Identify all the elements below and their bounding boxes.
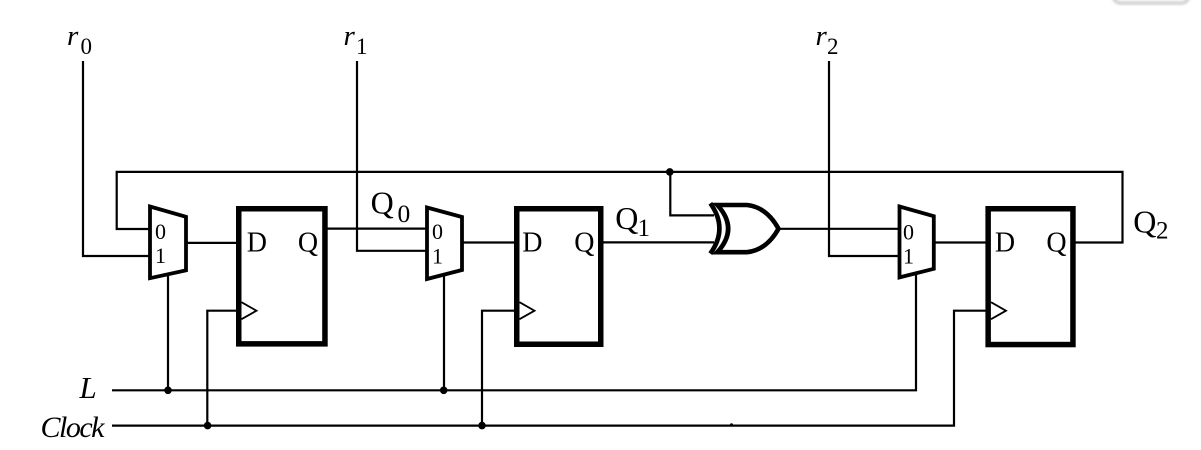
- label Q2: [1133, 204, 1168, 245]
- svg-text:1: 1: [903, 244, 914, 269]
- node L-mux1 junction: [164, 387, 172, 395]
- svg-text:0: 0: [81, 34, 93, 59]
- svg-text:Q: Q: [1046, 228, 1066, 259]
- svg-text:0: 0: [398, 199, 411, 228]
- wire r0 input (down to mux1 input 1): [83, 61, 150, 256]
- svg-text:Q: Q: [371, 185, 394, 221]
- partial gray UI button cut off at top-right: [1113, 0, 1189, 3]
- wire L line (to mux selects, ends rising to mux3 select): [112, 274, 916, 391]
- clock wedge of FF3: [991, 302, 1006, 319]
- wire Q0: FF1 Q output to mux2 input 0: [326, 228, 427, 230]
- multiplexer U3: [900, 207, 934, 278]
- node feedback junction: [666, 168, 674, 176]
- svg-text:r: r: [67, 20, 79, 52]
- wire XOR output to mux3 input 0: [778, 228, 900, 230]
- XOR gate body: [717, 205, 778, 252]
- wire Q1: FF2 Q output to XOR bottom input: [602, 241, 714, 243]
- label Q0: [371, 185, 411, 229]
- svg-text:r: r: [344, 20, 356, 52]
- wire feedback from Q2 output around top to mux1 input 0: [117, 172, 1123, 243]
- svg-text:Q: Q: [1133, 204, 1156, 240]
- wire XOR top input tap: [670, 172, 714, 216]
- XOR gate input double-arc: [710, 203, 719, 253]
- node L-mux2 junction: [440, 387, 448, 395]
- wire r1 input (down to mux2 input 1): [357, 61, 427, 251]
- label r1: [344, 20, 368, 59]
- wire mux3 output to D of FF3: [934, 241, 989, 243]
- svg-text:r: r: [816, 20, 828, 52]
- svg-text:1: 1: [638, 215, 651, 242]
- svg-text:Q: Q: [298, 228, 318, 259]
- wire FF1 clock from Clock line: [207, 311, 240, 426]
- svg-text:D: D: [247, 228, 267, 259]
- svg-text:0: 0: [903, 220, 914, 245]
- svg-text:2: 2: [827, 34, 839, 59]
- wire mux1 select down to L: [167, 274, 169, 391]
- wire mux2 output to D of FF2: [462, 241, 518, 243]
- multiplexer U2: [427, 208, 462, 280]
- label r2: [816, 20, 839, 59]
- node Clock-FF1 junction: [204, 422, 212, 430]
- flip-flop FF1: [239, 209, 325, 344]
- node Clock-FF2 junction: [478, 422, 486, 430]
- node small mark on Clock line: [730, 423, 733, 426]
- label r0: [67, 20, 92, 59]
- svg-text:1: 1: [432, 243, 443, 268]
- svg-text:Q: Q: [615, 200, 638, 236]
- wire mux1 output to D of FF1: [186, 242, 240, 244]
- svg-text:L: L: [79, 370, 97, 405]
- label Q1: [615, 200, 650, 242]
- svg-text:Q: Q: [574, 228, 594, 259]
- wire Clock line (ends rising to FF3 clock): [112, 311, 989, 426]
- svg-text:2: 2: [1156, 217, 1169, 244]
- clock wedge of FF2: [520, 302, 535, 319]
- flip-flop FF2: [517, 209, 601, 345]
- wire r2 input (down to mux3 input 1): [829, 61, 900, 256]
- svg-text:1: 1: [356, 34, 368, 59]
- wire mux2 select down to L: [443, 275, 445, 390]
- clock wedge of FF1: [242, 302, 257, 319]
- svg-text:1: 1: [155, 243, 166, 268]
- svg-text:0: 0: [155, 219, 166, 244]
- svg-text:D: D: [995, 228, 1015, 259]
- svg-text:0: 0: [432, 219, 443, 244]
- svg-text:Clock: Clock: [41, 411, 106, 444]
- multiplexer U1: [150, 207, 186, 279]
- wire FF2 clock from Clock line: [482, 311, 518, 426]
- flip-flop FF3: [988, 209, 1073, 345]
- svg-text:D: D: [522, 228, 542, 259]
